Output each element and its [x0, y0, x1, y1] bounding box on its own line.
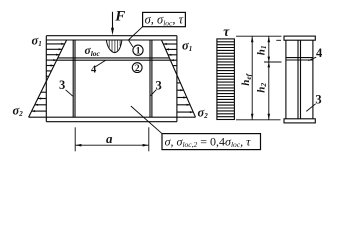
girder bottom flange (double line)	[46, 117, 177, 122]
girder top flange (double line)	[46, 36, 177, 40]
cross-section: top flange	[284, 36, 315, 40]
cross-section: bottom flange	[284, 119, 315, 123]
right bending stress diagram sigma1 (top triangle, hatched)	[162, 40, 177, 75]
leader from label box sigma,sigma_loc,tau	[128, 27, 142, 47]
leader from bottom label box	[131, 106, 162, 134]
right bending stress diagram sigma2 (bottom triangle, hatched)	[177, 75, 196, 118]
h dimensions: extension lines	[236, 36, 282, 120]
longitudinal stiffener 4 (elevation, double line)	[46, 58, 177, 60]
girder left edge	[45, 36, 47, 122]
left transverse stiffener 3 (double line)	[73, 40, 75, 117]
circled point 2	[132, 63, 142, 73]
cross-section: longitudinal stiffener 4 (double line)	[286, 58, 313, 60]
cross-section: transverse stiffener outer edges	[286, 40, 313, 119]
h1 / h2 dimension line	[268, 36, 270, 120]
svg-text:3: 3	[156, 79, 162, 93]
dimension a: extension lines	[75, 127, 149, 151]
circled point 1	[133, 45, 143, 55]
right stress diagram zero-line diagonal	[162, 40, 196, 117]
leader of left label 3	[66, 90, 73, 96]
svg-text:1: 1	[136, 47, 141, 57]
leader of label 3 (cross-section)	[306, 104, 315, 112]
force F arrow	[111, 12, 114, 36]
svg-text:a: a	[106, 131, 113, 146]
left bending stress diagram sigma1 (top triangle, hatched)	[47, 40, 67, 81]
left stress diagram zero-line diagonal	[29, 40, 67, 117]
left bending stress diagram sigma2 (bottom triangle, hatched)	[29, 81, 47, 117]
sigma_loc distribution curve under load (hatched U)	[106, 40, 122, 52]
svg-text:3: 3	[59, 78, 65, 92]
girder right edge	[176, 36, 178, 122]
svg-text:4: 4	[316, 46, 323, 60]
tau diagram bar (hatched rectangle)	[217, 39, 235, 120]
svg-text:4: 4	[91, 64, 97, 75]
svg-text:3: 3	[315, 93, 321, 107]
svg-text:τ: τ	[223, 24, 230, 39]
svg-text:2: 2	[135, 64, 140, 74]
svg-text:F: F	[114, 8, 125, 24]
leader of right label 3	[151, 90, 157, 96]
h_ef dimension line	[251, 36, 253, 120]
cross-section: web (double line)	[298, 40, 301, 119]
leader of label 4 (elevation)	[95, 60, 105, 66]
label box sigma, sigma_loc, tau (top)	[143, 12, 186, 26]
leader of label 4 (cross-section)	[308, 57, 316, 61]
dimension a: arrowheads	[75, 144, 148, 147]
right transverse stiffener 3 (double line)	[150, 40, 152, 117]
label box bottom (sigma_loc2 formula)	[162, 134, 261, 150]
